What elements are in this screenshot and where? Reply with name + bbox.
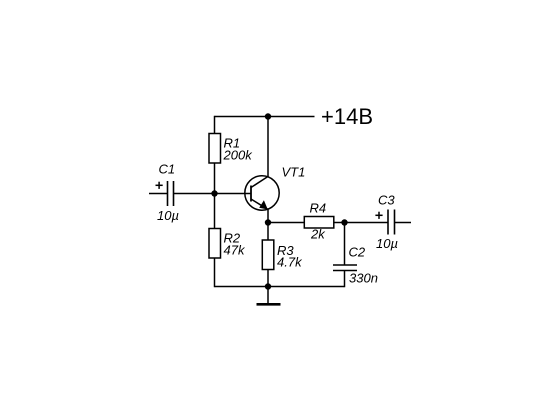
capacitor C3 <box>375 193 398 252</box>
svg-text:10µ: 10µ <box>376 236 398 251</box>
wire R2 top lead <box>214 194 216 230</box>
wire input to C1 <box>149 193 168 195</box>
VT1 base bar <box>250 186 252 202</box>
polarity plus mark <box>156 184 163 186</box>
wire top supply rail <box>215 116 315 118</box>
wire collector lead <box>267 117 269 178</box>
svg-text:10µ: 10µ <box>157 208 179 223</box>
node output junction <box>341 219 347 225</box>
svg-text:2k: 2k <box>310 227 326 242</box>
C2 top plate <box>333 264 357 266</box>
C2 bottom plate <box>333 270 357 272</box>
VT1 body circle <box>245 176 279 210</box>
svg-text:C1: C1 <box>159 162 176 177</box>
svg-text:4.7k: 4.7k <box>277 255 303 270</box>
node supply junction <box>265 113 271 119</box>
VT1 emitter stroke <box>251 199 268 210</box>
svg-text:VT1: VT1 <box>282 165 306 180</box>
svg-text:200k: 200k <box>223 148 254 163</box>
capacitor C1 <box>156 162 179 224</box>
svg-text:R4: R4 <box>310 201 327 216</box>
svg-text:+14В: +14В <box>321 104 373 129</box>
resistor R3 <box>262 240 303 270</box>
polarity plus mark <box>375 214 382 216</box>
wire C2 bottom lead <box>344 271 346 288</box>
ground <box>257 287 281 305</box>
VT1 emitter arrow <box>259 200 268 209</box>
capacitor C2 <box>333 245 378 286</box>
C3 left plate <box>387 210 389 235</box>
wire C3 to output <box>395 222 412 224</box>
transistor VT1 <box>245 165 306 211</box>
C3 right plate <box>394 210 396 235</box>
wire R2 bottom lead <box>214 258 216 288</box>
svg-text:330n: 330n <box>349 271 378 286</box>
wire R3 top lead <box>267 223 269 241</box>
C1 left plate <box>167 181 169 206</box>
resistor R2 <box>209 229 246 259</box>
node emitter junction <box>265 219 271 225</box>
C1 right plate <box>173 181 175 206</box>
svg-text:C3: C3 <box>378 193 395 208</box>
node ground junction <box>265 283 271 289</box>
svg-text:47k: 47k <box>224 243 246 258</box>
wire base lead <box>215 193 252 195</box>
svg-text:C2: C2 <box>349 245 366 260</box>
resistor R1 <box>209 134 253 164</box>
wire R4 to output node <box>334 222 345 224</box>
wire emitter lead <box>267 209 269 223</box>
resistor R4 <box>304 201 334 242</box>
wire emitter node to R4 <box>268 222 305 224</box>
wire R1 bottom lead to base node <box>214 162 216 194</box>
wire C2 top lead <box>344 223 346 266</box>
VT1 collector stroke <box>251 176 268 187</box>
wire bottom ground rail <box>215 286 345 288</box>
node base junction <box>211 190 217 196</box>
wire output node to C3 <box>345 222 389 224</box>
wire R3 bottom lead <box>267 270 269 288</box>
wire C1 to base node <box>174 193 215 195</box>
wire R1 top lead <box>214 116 216 134</box>
